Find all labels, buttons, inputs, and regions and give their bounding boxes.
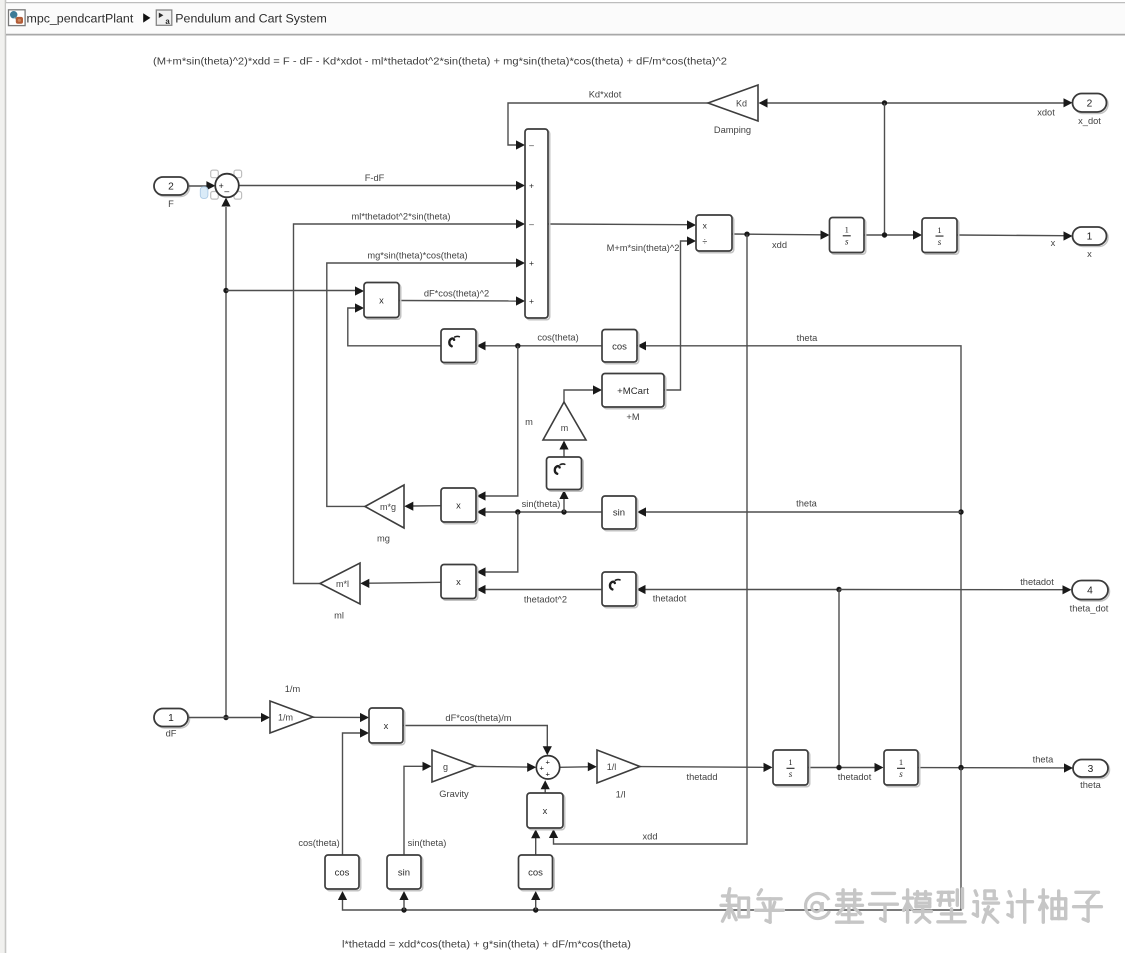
wire thetadot vertical tap <box>838 590 840 768</box>
wire sum to divide <box>548 220 696 229</box>
svg-text:theta: theta <box>797 333 819 343</box>
svg-text:m: m <box>561 423 569 433</box>
svg-text:cos: cos <box>612 342 627 353</box>
svg-text:s: s <box>845 237 849 247</box>
svg-text:x: x <box>1087 249 1092 259</box>
svg-text:÷: ÷ <box>702 236 707 246</box>
integrator 1/s (xdot) <box>830 218 866 255</box>
svg-text:cos(theta): cos(theta) <box>537 333 578 343</box>
wire F-dF to sum input 2 <box>239 181 525 190</box>
inport 1 dF <box>154 709 190 739</box>
wire divide out xdd <box>732 230 830 239</box>
svg-text:–: – <box>529 140 534 150</box>
svg-text:Kd: Kd <box>736 99 747 109</box>
svg-text:cos: cos <box>528 868 543 879</box>
svg-text:x: x <box>379 296 384 306</box>
svg-text:Damping: Damping <box>714 125 751 135</box>
wire squared cos to product input <box>348 303 441 345</box>
svg-text:+: + <box>529 258 534 268</box>
wire integrator4 to outport theta <box>918 763 1073 772</box>
svg-text:g: g <box>443 762 448 772</box>
wire cos1 up to product <box>343 728 370 855</box>
svg-text:dF: dF <box>166 729 177 739</box>
svg-text:x: x <box>543 806 548 816</box>
gain m*g <box>365 485 404 544</box>
wire 1/m to product <box>313 713 369 722</box>
label theta upper <box>797 333 819 343</box>
wire mg product to gain <box>404 502 441 511</box>
breadcrumb text Pendulum and Cart System <box>175 12 327 26</box>
label thetadd <box>686 772 717 782</box>
gain m*l <box>320 563 360 621</box>
wire sin(theta) to mg product <box>477 507 603 516</box>
svg-text:cos(theta): cos(theta) <box>298 838 339 848</box>
svg-text:+: + <box>219 181 224 191</box>
wire sin(theta) down to ml product <box>477 512 518 577</box>
svg-text:+: + <box>539 763 544 772</box>
model icon mpc_pendcartPlant <box>9 10 26 26</box>
sin block bottom <box>387 855 423 891</box>
svg-text:m: m <box>525 417 533 427</box>
svg-text:+: + <box>545 757 550 766</box>
wire Kd*xdot feedback <box>508 103 708 150</box>
bias block +MCart <box>602 374 666 423</box>
wire xdd product up to sum <box>541 780 550 793</box>
square u^2 (cos) <box>441 329 478 364</box>
svg-text:(M+m*sin(theta)^2)*xdd = F - d: (M+m*sin(theta)^2)*xdd = F - dF - Kd*xdo… <box>153 57 727 68</box>
wire cos2 up to product <box>531 829 540 855</box>
wire sin(theta) up to square <box>559 490 568 512</box>
wire square to m gain <box>559 441 568 458</box>
cos block bottom right <box>519 855 555 891</box>
svg-text:thetadot: thetadot <box>653 594 687 604</box>
svg-text:thetadot^2: thetadot^2 <box>524 595 567 605</box>
svg-text:thetadot: thetadot <box>838 772 872 782</box>
sum block (5-input add) <box>525 129 550 320</box>
gain 1/m <box>270 684 313 733</box>
wire F to sum <box>188 181 215 190</box>
svg-text:2: 2 <box>168 182 174 193</box>
svg-text:Gravity: Gravity <box>439 789 469 799</box>
label xdd top <box>772 240 787 250</box>
subsystem icon Pendulum and Cart System <box>156 10 172 26</box>
sin block mid <box>602 496 638 531</box>
svg-text:x: x <box>703 220 708 230</box>
gain g Gravity <box>432 750 475 799</box>
label thetadot mid <box>653 594 687 604</box>
inport 2 F <box>154 177 190 209</box>
gain 1/l <box>597 750 640 800</box>
outport 3 theta <box>1073 760 1110 791</box>
svg-text:sin(theta): sin(theta) <box>408 838 447 848</box>
integrator 1/s (theta) <box>884 750 920 787</box>
wire MCart to divide <box>664 236 696 390</box>
svg-text:1: 1 <box>788 757 792 767</box>
watermark zhihu <box>721 889 1101 923</box>
label thetadot^2 <box>524 595 567 605</box>
svg-text:thetadot: thetadot <box>1020 577 1054 587</box>
svg-text:1/l: 1/l <box>607 762 617 772</box>
svg-text:dF*cos(theta)/m: dF*cos(theta)/m <box>445 713 511 723</box>
integrator 1/s (thetadot) <box>773 750 810 787</box>
svg-text:–: – <box>529 219 534 229</box>
label sin(theta) mid <box>522 499 561 509</box>
svg-text:dF*cos(theta)^2: dF*cos(theta)^2 <box>424 289 489 299</box>
wire theta to cos block <box>637 341 964 770</box>
svg-text:F: F <box>168 199 174 209</box>
wire integrator1 to integrator2 <box>864 230 922 239</box>
wire integrator3 to integrator4 <box>808 763 884 772</box>
svg-text:3: 3 <box>1088 764 1094 775</box>
svg-text:xdot: xdot <box>1037 108 1055 118</box>
label theta mid <box>796 499 818 509</box>
wire dF to 1/m <box>188 713 270 722</box>
svg-text:1/m: 1/m <box>278 713 293 723</box>
product dF/m*cos <box>369 708 405 745</box>
breadcrumb separator arrow <box>143 13 150 22</box>
outport 4 theta_dot <box>1070 581 1110 614</box>
svg-text:x: x <box>384 721 389 731</box>
svg-text:ml*thetadot^2*sin(theta): ml*thetadot^2*sin(theta) <box>352 212 451 222</box>
svg-text:mg*sin(theta)*cos(theta): mg*sin(theta)*cos(theta) <box>367 251 467 261</box>
wire thetadot to outport <box>839 585 1072 594</box>
svg-text:s: s <box>938 237 942 247</box>
wire theta return bottom <box>338 768 961 913</box>
svg-text:ml: ml <box>334 611 344 621</box>
label F-dF <box>365 173 385 183</box>
wire xdot vertical tap <box>884 103 886 235</box>
wire xdd feedback down <box>549 234 747 844</box>
wire mg*sin(theta)*cos(theta) to sum input 4 <box>327 258 525 506</box>
svg-text:theta_dot: theta_dot <box>1070 604 1109 614</box>
svg-text:+: + <box>529 296 534 306</box>
label cos(theta) bottom <box>298 838 339 848</box>
svg-text:sin(theta): sin(theta) <box>522 499 561 509</box>
wire ml product to gain <box>360 579 441 588</box>
wire lower sum to 1/l <box>560 762 597 771</box>
svg-text:theta: theta <box>796 499 818 509</box>
gain Damping Kd <box>708 85 758 135</box>
selection handles <box>211 170 242 199</box>
product xdd*cos <box>527 793 565 830</box>
top equation annotation <box>153 57 727 68</box>
wire integrator2 to outport x <box>957 231 1073 240</box>
label sin(theta) bottom <box>408 838 447 848</box>
outport 2 x_dot <box>1073 94 1109 127</box>
label dF*cos(theta)/m <box>445 713 511 723</box>
wire sin2 up to g gain <box>404 762 432 855</box>
svg-text:x: x <box>456 501 461 511</box>
svg-text:m*l: m*l <box>336 579 349 589</box>
svg-text:+MCart: +MCart <box>617 386 649 397</box>
wire xdot to Damping <box>759 98 885 107</box>
label cos(theta) <box>537 333 578 343</box>
wire theta return to sin2 <box>399 891 408 910</box>
label dF*cos(theta)^2 <box>424 289 489 299</box>
wire xdot to outport <box>882 98 1073 107</box>
wire dF vertical trunk <box>221 198 230 721</box>
svg-text:2: 2 <box>1087 98 1093 109</box>
svg-text:+: + <box>545 770 550 779</box>
label M+m*sin(theta)^2 <box>607 243 680 253</box>
svg-text:x: x <box>1051 238 1056 248</box>
svg-text:1/l: 1/l <box>616 790 626 800</box>
left gutter strip <box>0 0 6 953</box>
svg-text:cos: cos <box>335 868 350 879</box>
integrator 1/s (x) <box>922 218 959 254</box>
svg-text:mpc_pendcartPlant: mpc_pendcartPlant <box>27 12 134 26</box>
svg-text:Kd*xdot: Kd*xdot <box>589 90 622 100</box>
svg-text:theta: theta <box>1033 755 1055 765</box>
svg-text:s: s <box>899 769 903 779</box>
svg-text:1: 1 <box>845 225 849 235</box>
square u^2 (for m) <box>547 457 584 491</box>
svg-text:4: 4 <box>1087 586 1093 597</box>
divide block <box>696 215 734 253</box>
wire ml*thetadot^2*sin(theta) to sum input 3 <box>294 219 526 583</box>
wire theta return to cos2 <box>531 891 540 910</box>
wire 1/l to integrator3 <box>640 763 773 772</box>
svg-text:M+m*sin(theta)^2: M+m*sin(theta)^2 <box>607 243 680 253</box>
product ml*thetadot^2 <box>441 565 478 601</box>
svg-text:sin: sin <box>613 508 625 519</box>
label xdot <box>1037 108 1055 118</box>
svg-text:xdd: xdd <box>772 240 787 250</box>
wire dFcos/m to lower sum <box>403 726 552 756</box>
square u^2 (thetadot) <box>602 572 638 608</box>
breadcrumb text mpc_pendcartPlant <box>27 12 134 26</box>
gain m (vertical) <box>525 402 586 440</box>
wire dF branch to product <box>226 286 364 295</box>
svg-text:+M: +M <box>626 412 639 422</box>
svg-text:1/m: 1/m <box>285 684 301 694</box>
wire g to lower sum <box>475 763 536 772</box>
product dF*cos^2 <box>364 283 401 320</box>
svg-text:mg: mg <box>377 534 390 544</box>
wire cos(theta) branch down to product <box>477 346 518 501</box>
svg-text:xdd: xdd <box>643 832 658 842</box>
wire theta to sin block <box>637 507 961 516</box>
label ml*thetadot^2*sin(theta) <box>352 212 451 222</box>
bottom equation annotation <box>342 940 631 951</box>
annotation badge blue <box>200 187 208 199</box>
label mg*sin(theta)*cos(theta) <box>367 251 467 261</box>
svg-text:theta: theta <box>1080 780 1102 790</box>
svg-text:1: 1 <box>899 757 903 767</box>
svg-text:x_dot: x_dot <box>1078 116 1101 126</box>
svg-text:m*g: m*g <box>380 502 396 512</box>
svg-text:+: + <box>529 181 534 191</box>
svg-text:1: 1 <box>1087 232 1093 243</box>
cos block upper <box>602 330 639 364</box>
sum circle lower <box>536 756 559 779</box>
svg-text:F-dF: F-dF <box>365 173 385 183</box>
label xdd lower <box>643 832 658 842</box>
label Kd*xdot <box>589 90 622 100</box>
label x near outport <box>1051 238 1056 248</box>
wire dF*cos(theta)^2 to sum input 5 <box>399 296 525 305</box>
cos block bottom left <box>325 855 361 891</box>
svg-text:Pendulum and Cart System: Pendulum and Cart System <box>175 12 327 26</box>
breadcrumb bar <box>6 3 1125 35</box>
svg-text:s: s <box>789 769 793 779</box>
svg-text:–: – <box>224 186 229 196</box>
svg-text:l*thetadd = xdd*cos(theta) + g: l*thetadd = xdd*cos(theta) + g*sin(theta… <box>342 940 631 951</box>
sum circle F minus dF <box>215 174 239 198</box>
svg-text:1: 1 <box>168 713 174 724</box>
svg-text:1: 1 <box>937 225 941 235</box>
wire cos(theta) to square <box>477 341 603 350</box>
wire thetadot to square <box>637 585 842 594</box>
label theta bottom <box>1033 755 1055 765</box>
product mg*sin*cos <box>441 488 478 524</box>
label thetadot bottom <box>838 772 872 782</box>
svg-text:a: a <box>165 17 170 26</box>
svg-text:sin: sin <box>398 868 410 879</box>
outport 1 x <box>1073 227 1109 259</box>
svg-text:thetadd: thetadd <box>686 772 717 782</box>
wire thetadot^2 to ml product <box>477 585 603 594</box>
svg-text:x: x <box>456 577 461 587</box>
label thetadot near port <box>1020 577 1054 587</box>
wire m gain to MCart <box>564 385 602 402</box>
